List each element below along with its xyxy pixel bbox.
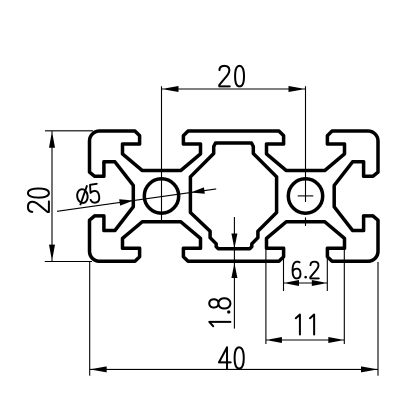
dim line 11 xyxy=(266,339,344,341)
label 6.2 xyxy=(293,262,319,279)
ext line 20 left bottom xyxy=(45,261,92,263)
arrow dim-20-top right xyxy=(289,86,306,92)
dim line 20 top xyxy=(162,88,306,90)
hole left (diameter 5) xyxy=(144,179,178,213)
arrow dia5 right xyxy=(119,199,133,205)
ext line 11 right xyxy=(343,249,345,344)
ext line 40 left xyxy=(89,262,91,376)
arrow dim-6.2 right xyxy=(312,280,328,286)
arrow dim-1.8 up xyxy=(231,263,237,278)
label dia5 symbol circle xyxy=(76,189,88,204)
arrow dim-6.2 left xyxy=(284,280,300,286)
label 1.8 xyxy=(209,298,230,326)
ext line 40 right xyxy=(377,262,379,376)
ext line 6.2 left xyxy=(283,258,285,292)
central cavity xyxy=(190,143,276,249)
label 11 xyxy=(296,315,314,335)
ext line 20 left top xyxy=(45,130,93,132)
centerline right hole stub xyxy=(305,218,307,227)
dim line 6.2 xyxy=(284,282,328,284)
arrow dim-20-top left xyxy=(162,86,179,92)
dim line 20 left xyxy=(51,131,53,261)
arrow dim-20-left down xyxy=(49,245,55,261)
centerline right hole vertical / ext line 20-top right xyxy=(305,86,307,202)
dim line 40 xyxy=(90,368,378,370)
arrow dim-11 right xyxy=(328,337,344,343)
centerline right hole horizontal xyxy=(298,195,314,197)
hole right (diameter 5) xyxy=(288,179,322,213)
arrow dim-40 right xyxy=(361,366,378,372)
centerline left hole vertical / ext line 20-top left xyxy=(161,86,163,223)
label 20 left xyxy=(28,188,49,212)
ext line 6.2 right xyxy=(326,258,328,292)
arrow dim-20-left up xyxy=(49,131,55,147)
arrow dia5 left xyxy=(191,187,205,193)
dim line 1.8 vertical xyxy=(233,217,235,329)
arrow dim-11 left xyxy=(266,337,282,343)
label dia5 digit 5 xyxy=(88,184,100,204)
ext line 11 left xyxy=(265,249,267,344)
label 20 top xyxy=(219,66,244,87)
label 40 xyxy=(219,347,244,368)
leader line dia5 xyxy=(57,189,216,211)
label dia5 symbol slash xyxy=(80,185,87,205)
arrow dim-40 left xyxy=(90,366,107,372)
arrow dim-1.8 down xyxy=(231,234,237,249)
profile outer contour with six T-slots xyxy=(90,131,379,261)
